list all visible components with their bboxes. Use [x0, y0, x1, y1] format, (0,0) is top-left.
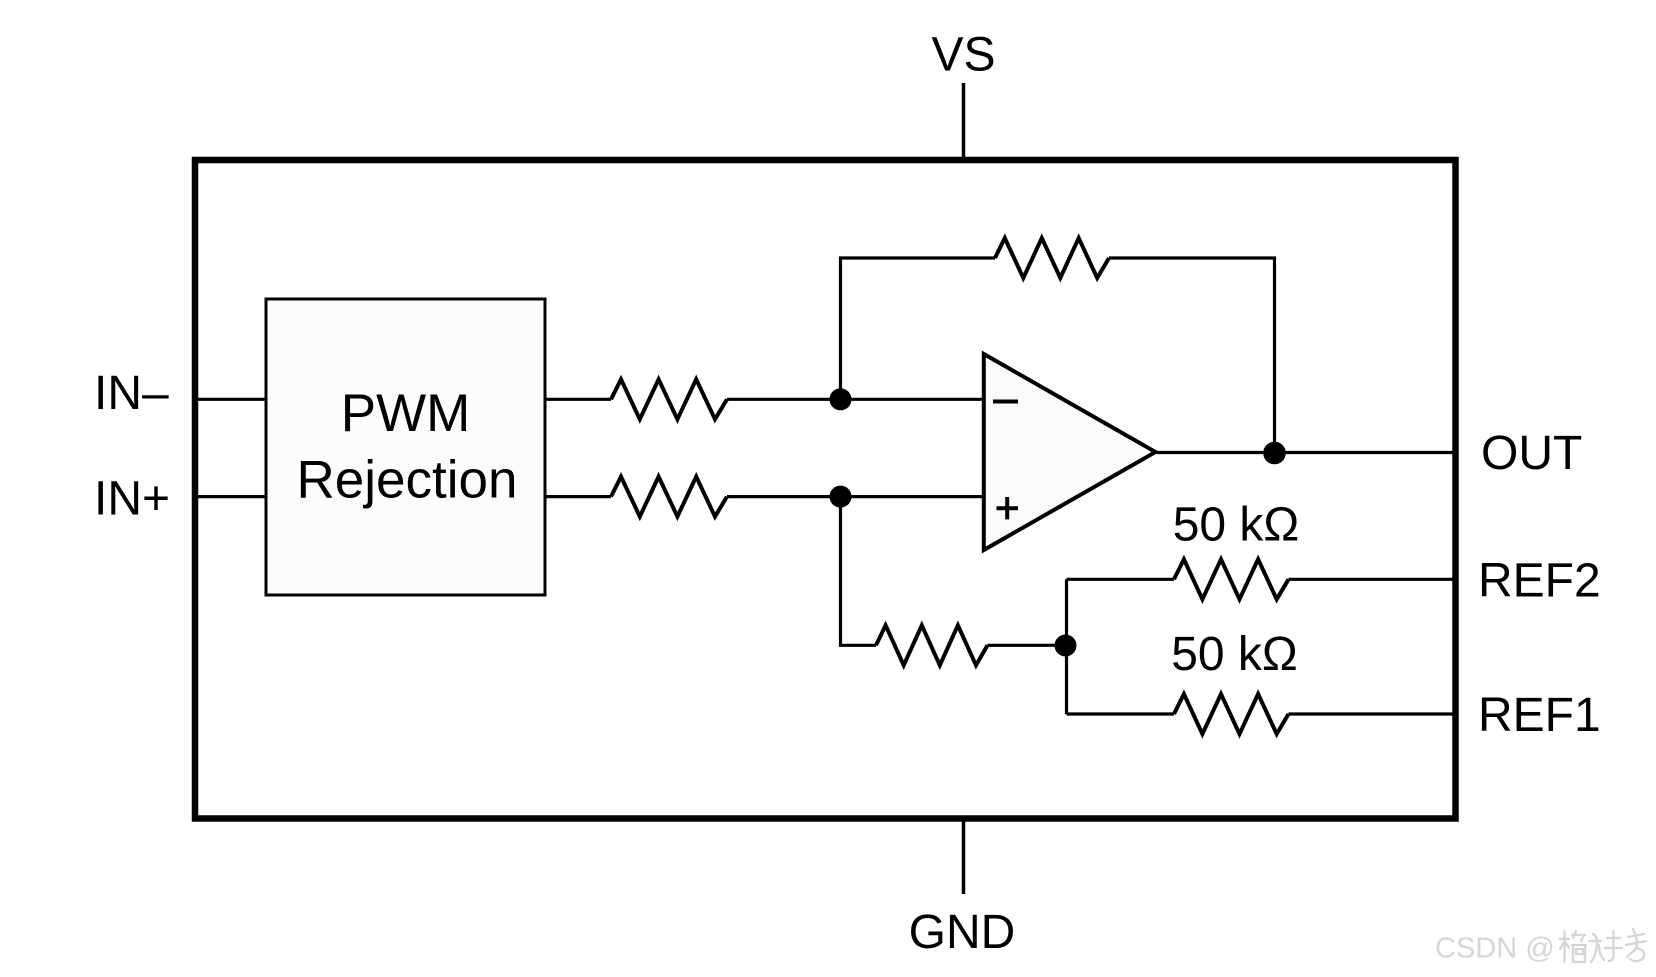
VS label: [931, 29, 995, 82]
PWM Rejection block: [266, 299, 545, 595]
IN+ label: [94, 473, 170, 526]
svg-text:GND: GND: [909, 906, 1016, 959]
node: inverting input junction: [830, 388, 852, 410]
IC boundary box: [195, 160, 1456, 819]
op-amp minus pin label: [993, 400, 1018, 404]
node: non-inverting input junction: [830, 486, 852, 508]
wire R2 to op-amp non-inverting input: [727, 495, 984, 498]
wire IN- stub: [195, 398, 266, 401]
wire IN+ stub: [195, 495, 266, 498]
wire PWM to R1: [545, 398, 611, 401]
wire R4 to reference junction: [988, 644, 1066, 647]
resistor R2 (non-inverting input): [611, 477, 727, 517]
resistor R6 (50 kOhm REF1): [1174, 694, 1289, 734]
svg-text:50 kΩ: 50 kΩ: [1173, 499, 1300, 552]
OUT label: [1481, 427, 1582, 480]
svg-text:Rejection: Rejection: [297, 451, 518, 510]
IN- label: [94, 367, 169, 420]
svg-text:IN–: IN–: [94, 367, 169, 420]
watermark glyph ki: [1626, 929, 1646, 961]
value label 50 kOhm (REF2): [1173, 499, 1300, 552]
wire feedback right drop: [1109, 258, 1275, 453]
node: reference divider junction: [1055, 635, 1077, 657]
wire PWM to R2: [545, 495, 611, 498]
svg-text:VS: VS: [931, 29, 995, 82]
svg-text:REF1: REF1: [1478, 689, 1601, 742]
wire R1 to op-amp inverting input: [727, 398, 984, 401]
VS pin wire: [962, 83, 966, 160]
wire junction to R6: [1067, 712, 1175, 715]
svg-text:IN+: IN+: [94, 473, 170, 526]
wire R5 to REF2 pin: [1289, 578, 1457, 581]
op-amp U1: [984, 354, 1156, 550]
resistor R1 (inverting input): [611, 379, 727, 419]
resistor R4 (to reference divider): [876, 625, 988, 665]
wire op-amp output to OUT: [1156, 451, 1457, 454]
watermark glyph kou: [1589, 934, 1604, 962]
GND label: [909, 906, 1016, 959]
REF2 label: [1478, 555, 1601, 608]
svg-text:PWM: PWM: [341, 384, 471, 443]
wire reference junction riser: [1065, 579, 1068, 714]
wire junction to R5: [1067, 578, 1175, 581]
op-amp plus pin label: [997, 497, 1019, 519]
svg-text:CSDN @: CSDN @: [1435, 933, 1555, 965]
resistor R5 (50 kOhm REF2): [1174, 559, 1289, 599]
value label 50 kOhm (REF1): [1171, 628, 1298, 681]
wire non-inverting node down to R4: [841, 497, 877, 646]
watermark CSDN: [1435, 929, 1646, 965]
wire feedback left riser: [841, 258, 996, 399]
GND pin wire: [962, 818, 966, 894]
resistor R3 (feedback): [995, 238, 1109, 278]
svg-text:REF2: REF2: [1478, 555, 1601, 608]
svg-text:50 kΩ: 50 kΩ: [1171, 628, 1298, 681]
watermark glyph tachibana: [1560, 931, 1569, 962]
REF1 label: [1478, 689, 1601, 742]
node: output junction: [1263, 442, 1286, 465]
svg-text:OUT: OUT: [1481, 427, 1582, 480]
wire R6 to REF1 pin: [1289, 712, 1457, 715]
